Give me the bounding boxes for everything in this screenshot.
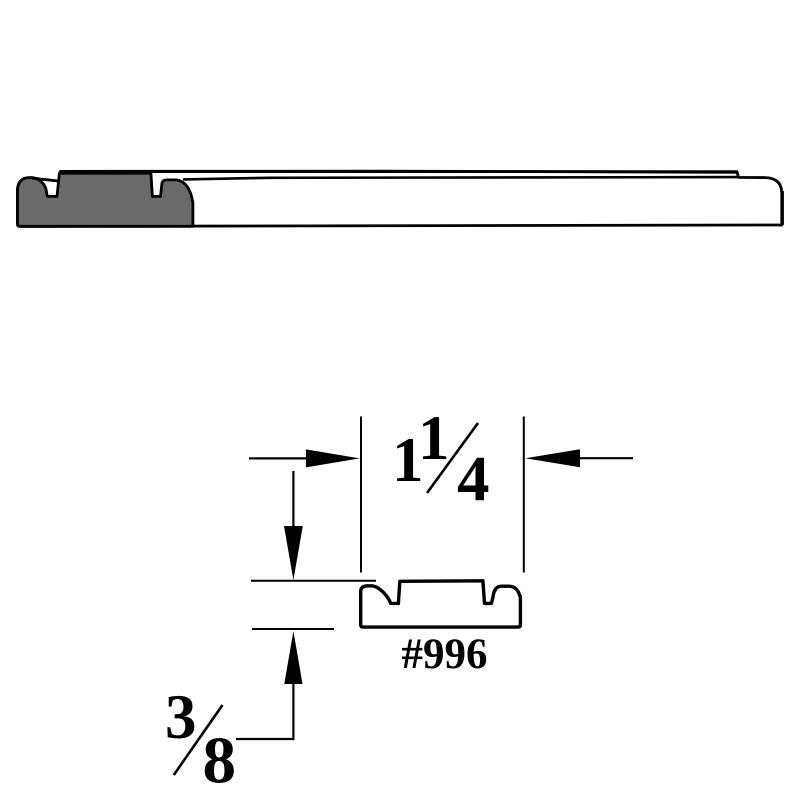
svg-text:8: 8 — [203, 724, 237, 798]
right end edge (thickened) — [781, 191, 784, 225]
width dimension: left arrowhead — [306, 449, 360, 467]
width dimension: left arrow line — [249, 457, 307, 459]
width dimension: right extension line — [523, 417, 525, 573]
molding strip silhouette (perspective body) — [18, 172, 782, 227]
width dimension: right arrow line — [579, 457, 633, 459]
near crest line (front top edge of strip) — [183, 177, 739, 179]
height dimension: up arrowhead — [284, 631, 302, 684]
width dimension: right arrowhead — [525, 449, 580, 467]
gray end-face cross-section profile — [18, 173, 193, 226]
height dimension: down arrow stem — [292, 471, 294, 527]
bead crest line (left dome top edge in perspective) — [32, 178, 59, 181]
svg-text:4: 4 — [457, 444, 490, 516]
plateau crest line (far top edge of strip) — [60, 171, 737, 172]
height dimension: bottom extension line — [252, 628, 334, 630]
svg-text:#996: #996 — [402, 631, 488, 678]
dimension text 1 1/4: fraction slash — [427, 423, 478, 493]
height dimension: down arrowhead — [284, 526, 303, 580]
small cross-section profile outline — [361, 581, 521, 627]
height dimension: top extension line — [251, 580, 376, 582]
svg-text:3: 3 — [165, 682, 197, 752]
height dimension: up arrow stem and leader — [236, 683, 293, 739]
dimension text 3/8: fraction slash — [174, 705, 223, 775]
svg-text:1: 1 — [418, 403, 450, 473]
width dimension: left extension line — [360, 417, 362, 573]
